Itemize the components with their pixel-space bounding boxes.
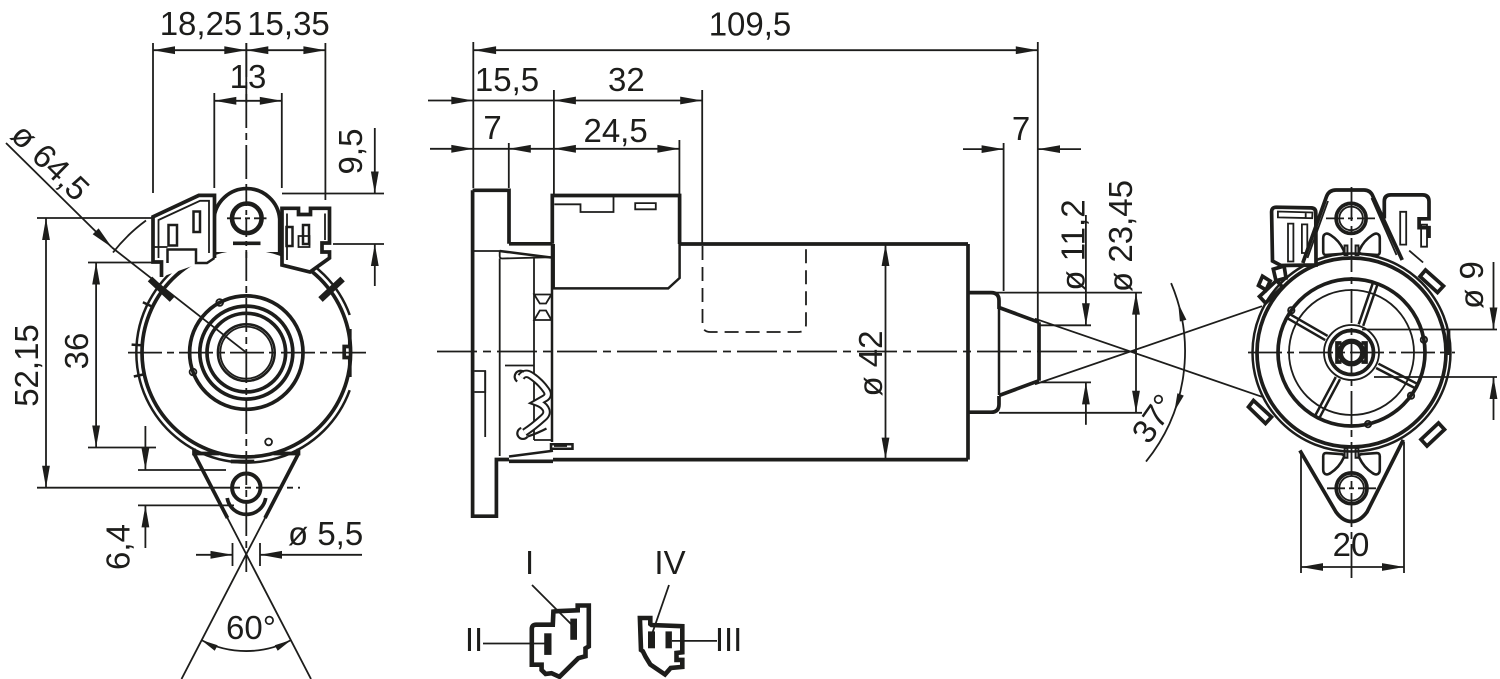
front view: mount hole: [232, 474, 260, 502]
front view: construction line left: [194, 454, 311, 679]
dim dia 11,2 arrow bottom: [1082, 382, 1090, 404]
front view: mount right slant: [265, 454, 299, 519]
dim 109,5 ext right: [1037, 42, 1039, 320]
rear view: lug right-mid: [1447, 330, 1451, 355]
dim 15,5/32 line: [428, 100, 702, 102]
front view: top mounting hole: [232, 204, 262, 234]
front view: mount hole centerline: [214, 487, 300, 489]
side view: neck left edge: [551, 245, 554, 442]
dim 7 right ext line: [1003, 143, 1005, 291]
svg-text:9,5: 9,5: [332, 129, 369, 175]
dim dia 64,5 arc: [113, 221, 146, 253]
front view: right flat notch: [344, 329, 350, 377]
side view: 37 deg arrow bottom: [1174, 393, 1183, 411]
leader line I: [532, 585, 572, 625]
dim 13 line: [214, 100, 281, 102]
dim dia 11,2 arrow top: [1082, 303, 1090, 325]
dim 7 right line left part: [963, 148, 1004, 150]
rear view: centerline vertical: [1351, 187, 1353, 583]
dim 9,5 arrow top: [371, 172, 379, 194]
side view: 37 deg arc: [1146, 283, 1185, 462]
rear view: shaft circle outer: [1339, 340, 1365, 366]
dim 15,5 ext (gearbox corner): [553, 90, 555, 194]
front view: diameter 64.5 leader diagonal to center: [112, 248, 246, 353]
dim arrow at 325: [303, 46, 325, 54]
rear view: top ear inner slant left: [1308, 201, 1329, 258]
rear view: flange contour circle: [1253, 254, 1451, 452]
rear view: top ear cutout right: [1359, 234, 1380, 255]
side view: latch tab: [551, 444, 573, 449]
side view: bearing hourglass: [534, 295, 551, 321]
side view: nose cone top: [999, 308, 1039, 323]
side view: mounting face top: [509, 242, 553, 246]
side view: axis centerline: [437, 351, 1137, 353]
svg-text:ø 64,5: ø 64,5: [4, 116, 97, 208]
front view: bearing bore inner: [220, 327, 272, 379]
dim 24,5 arrow right: [657, 145, 679, 153]
dim 32 arrow right: [680, 97, 702, 105]
dim dia 9 ext top: [1362, 329, 1497, 331]
side view: gearbox vent step: [554, 196, 613, 213]
dim dia 42 line: [885, 244, 887, 460]
dim 24,5 ext line: [678, 140, 680, 194]
dim 6,4 ext bottom: [138, 504, 234, 506]
rear view: shaft circle inner: [1341, 342, 1362, 363]
dim dia 11,2 line bottom: [1085, 382, 1087, 424]
front view: 60 deg arc arrow left: [201, 640, 218, 651]
rear view: shroud circle outer: [1278, 279, 1425, 426]
dim dia 23,45 arrow bottom: [1132, 391, 1140, 413]
svg-text:15,5: 15,5: [475, 61, 539, 98]
dim 6,4 arrow bottom: [142, 505, 150, 527]
svg-text:7: 7: [1012, 110, 1030, 147]
dim 32 ext line: [701, 90, 703, 244]
front view: centerline vertical: [245, 43, 247, 572]
dim 6,4 line top: [144, 426, 146, 470]
front view: flange top flat under dome: [233, 241, 261, 245]
side view: neck inner line: [533, 258, 535, 440]
svg-text:6,4: 6,4: [100, 524, 137, 570]
rear view: rib down-right: [1376, 364, 1417, 388]
dim 6,4 line bottom: [144, 505, 146, 548]
connector detail III/IV outline: [640, 618, 682, 675]
dim 109,5 arrow right: [1016, 46, 1038, 54]
rear view: hub notch right: [1362, 343, 1367, 362]
svg-text:15,35: 15,35: [247, 5, 330, 42]
dim 13 arrow left: [214, 97, 236, 105]
front view: top hole crosshair: [227, 217, 267, 219]
front view: flange tab: [132, 343, 144, 346]
dim dia 42 arrow bottom: [882, 438, 890, 460]
front view: mount slot line: [231, 460, 255, 464]
dim 18,25 15,35 line: [153, 49, 325, 51]
dim arrow into 473 right: [451, 97, 473, 105]
svg-text:ø 23,45: ø 23,45: [1102, 180, 1139, 292]
dim 52,15 arrow top: [42, 218, 50, 240]
rear view: connector right slot a: [1400, 212, 1406, 245]
dim dia 5,5 arrow right: [260, 551, 282, 559]
leader line III: [672, 640, 717, 642]
rear view: rib up: [1359, 283, 1378, 326]
front view: mount left slant: [194, 454, 228, 519]
rear view: bottom throat slot right: [1356, 448, 1359, 458]
front view: boss circle r46: [200, 306, 293, 399]
svg-text:IV: IV: [654, 544, 685, 581]
rear view: bottom throat slot left: [1345, 448, 1348, 458]
dim arrow at 246 right: [224, 46, 246, 54]
side view: spring clip top head: [515, 371, 524, 382]
dim 20 ext right: [1403, 442, 1405, 573]
front view: rim nub b: [190, 369, 197, 376]
dim dia 11,2 line top: [1085, 215, 1087, 325]
side view: gearbox lower outline: [554, 244, 680, 288]
rear view: shroud circle inner: [1289, 290, 1414, 415]
svg-text:I: I: [525, 544, 534, 581]
dim 6,4 arrow top: [142, 448, 150, 470]
dim 24,5 arrow left: [554, 145, 576, 153]
svg-text:ø 5,5: ø 5,5: [288, 515, 363, 552]
dim dia 9 line top: [1493, 262, 1495, 330]
dim dia 64,5 leader upper segment: [6, 143, 112, 248]
front view: connector III/IV inner: [287, 214, 325, 261]
dim dia 11,2 ext bottom: [1040, 381, 1091, 383]
svg-text:60°: 60°: [226, 609, 276, 646]
dim 20 line: [1301, 566, 1404, 568]
rear view: bottom ear cutout right: [1359, 453, 1380, 474]
svg-text:32: 32: [608, 61, 645, 98]
side view: flange plate pocket lower: [484, 371, 486, 437]
rear view: top throat slot left: [1345, 246, 1348, 256]
dim dia 9 line bottom: [1493, 377, 1495, 420]
side view: cone construction line lower: [1035, 306, 1262, 384]
dim arrow at 246 left: [246, 46, 268, 54]
dim dia 23,45 ext bottom: [999, 412, 1142, 414]
rear view: connector left lug: [1259, 276, 1271, 290]
side view: nose end face: [1037, 322, 1041, 380]
front view: connector I/II pin slot 1: [169, 225, 178, 246]
side view: end bell bottom: [968, 396, 999, 412]
front view: top dome boss: [214, 189, 280, 252]
dim dia 5,5 ext right: [259, 543, 261, 566]
side view: nose cone bottom: [999, 381, 1039, 396]
front view: centerline horizontal: [128, 352, 366, 354]
dim 36 arrow top: [92, 263, 100, 285]
dim arrow at 153: [153, 46, 175, 54]
front view: flange tab: [134, 374, 146, 377]
dim 9,5 ext top: [282, 193, 384, 195]
side view: cone construction line upper: [1035, 319, 1262, 397]
dim 7/24,5 line: [430, 148, 679, 150]
front view: connector III/IV outline: [282, 208, 330, 272]
svg-text:37°: 37°: [1124, 387, 1183, 449]
front view: mount boss arc: [227, 498, 266, 514]
leader line II: [483, 643, 546, 645]
dim dia 42 arrow top: [882, 244, 890, 266]
connector detail I pin: [570, 619, 577, 640]
front view: connector I/II step: [153, 246, 168, 248]
leader line IV: [653, 585, 669, 632]
dim 7 right line right part: [1038, 148, 1081, 150]
dim 9,5 arrow bottom: [371, 244, 379, 266]
front view: center extension solid: [245, 43, 247, 103]
front view: flange contour arc: [136, 243, 349, 463]
rear view: top throat slot right: [1356, 246, 1359, 256]
svg-text:7: 7: [483, 109, 501, 146]
dim 20 arrow left: [1301, 563, 1323, 571]
rear view: hub notch left: [1337, 343, 1342, 362]
side view: end bell top: [968, 293, 999, 309]
svg-text:ø 42: ø 42: [852, 330, 889, 396]
rear view: bearing ring: [1324, 325, 1379, 380]
dim 13 ext right: [281, 93, 283, 188]
rear view: bottom ear gusset: [1300, 440, 1403, 522]
rear view: pot circle: [1257, 258, 1446, 447]
side view: nose face line: [998, 309, 1001, 395]
dim 7 arrow left-pointing: [509, 145, 531, 153]
dim 109,5 arrow left: [474, 46, 496, 54]
svg-text:13: 13: [230, 58, 267, 95]
connector detail I/II outline: [532, 606, 589, 677]
rear view: lug right-low: [1421, 423, 1445, 446]
connector detail II pin: [544, 633, 551, 655]
front view: rim nub a: [216, 299, 223, 306]
dim 6,4 ext top: [138, 469, 226, 471]
rear view: rim nub d: [1288, 307, 1294, 313]
rear view: rib down-left: [1315, 377, 1340, 418]
dim 7 arrow right-pointing: [451, 145, 473, 153]
front view: rim nub c: [265, 439, 272, 446]
rear view: lug left-low: [1249, 401, 1272, 424]
dim dia 23,45 line: [1135, 293, 1137, 413]
dim dia 5,5 arrow left: [211, 551, 233, 559]
front view: connector III/IV pin slot 2: [303, 225, 309, 244]
front view: construction line right: [182, 454, 299, 679]
front view: connector I/II bottom notch: [168, 250, 215, 264]
dim 36 ext bottom: [88, 447, 156, 449]
front view: mount right corner edge: [274, 449, 299, 454]
connector detail III pin: [666, 631, 672, 648]
rear view: centerline horizontal: [1248, 352, 1455, 354]
front view: boss circle r57: [190, 296, 303, 409]
rear view: connector left bottom tab: [1273, 266, 1286, 281]
front view: connector I/II outline: [153, 195, 215, 277]
rear view: lug left-top: [1260, 281, 1283, 304]
dim 13 arrow right: [260, 97, 282, 105]
dim 20 arrow right: [1382, 563, 1404, 571]
side view: gearbox outline: [552, 196, 679, 245]
front view: 60 deg arc arrow right: [275, 640, 292, 651]
front view: connector III/IV small box: [299, 236, 310, 247]
rear view: top ear cutout left: [1323, 234, 1344, 255]
side view: foot line: [509, 459, 553, 463]
side view: 37 deg arrow top: [1178, 303, 1186, 321]
side view: gearbox vent slot: [635, 203, 656, 209]
rear view: top ear hole outer: [1336, 203, 1366, 233]
dim 13 ext left: [213, 93, 215, 188]
rear view: top ear hole crosshair: [1326, 217, 1377, 219]
dim 18,25/15,35 ext line left: [152, 43, 154, 193]
dim dia 64,5 arrow: [93, 228, 112, 247]
side view: pot bottom line: [553, 458, 968, 462]
rear view: connector left top strip: [1278, 212, 1313, 219]
dim 9,5 line bottom: [374, 244, 376, 286]
svg-text:18,25: 18,25: [160, 5, 243, 42]
dim 36 line: [95, 263, 97, 448]
side view: mounting lip slant bottom: [509, 451, 553, 457]
front view: 60 deg arc: [201, 640, 291, 651]
front view: connector I/II inner outline: [159, 201, 210, 258]
dim 36 arrow bottom: [92, 426, 100, 448]
rear view: top ear gusset: [1303, 190, 1402, 263]
svg-text:52,15: 52,15: [8, 324, 45, 407]
side view: pot right edge: [966, 244, 970, 460]
svg-text:II: II: [465, 621, 483, 658]
side view: flange plate right face: [499, 259, 501, 457]
dim ext line right: [324, 43, 326, 200]
front view: connector I/II pin slot 2: [194, 212, 201, 233]
dim 109,5 ext left: [472, 42, 474, 188]
rear view: bottom ear cutout left: [1323, 453, 1344, 474]
side view: latch tab inner: [554, 445, 567, 447]
side view: neck cavity bottom: [534, 439, 552, 441]
connector detail IV pin: [648, 631, 655, 648]
dim 52,15 line: [45, 218, 47, 488]
dim 9,5 line top: [374, 128, 376, 194]
dim 7 right arrow right: [1038, 145, 1060, 153]
rear view: top ear inner slant right: [1372, 198, 1397, 255]
side view: hidden gear dashed box: [703, 246, 807, 332]
side view: mounting lip slant top: [500, 251, 551, 258]
rear view: rim nub b: [1408, 393, 1414, 399]
front view: mount left corner edge: [194, 449, 219, 454]
side view: flange plate inner pocket: [475, 371, 486, 392]
rear view: rim nub c: [1365, 421, 1371, 427]
rear view: connector left slot b: [1302, 224, 1307, 253]
dim dia 11,2 ext top: [1040, 324, 1091, 326]
front view: rim wedge right: [321, 279, 343, 300]
dim 52,15 ext bottom: [37, 487, 214, 489]
side view: flange plate step top: [473, 251, 551, 259]
rear view: connector left slot a: [1288, 224, 1293, 262]
dim dia 9 arrow top: [1490, 308, 1498, 330]
svg-text:III: III: [715, 621, 743, 658]
rear view: top ear hole inner: [1339, 207, 1363, 231]
dim dia 9 ext bottom: [1374, 376, 1497, 378]
svg-text:ø 11,2: ø 11,2: [1055, 199, 1092, 290]
front view: pot outer circle: [142, 248, 351, 457]
dim 9,5 ext bottom: [333, 243, 384, 245]
side view: brush plate line: [505, 365, 534, 367]
front view: flange tab: [143, 302, 154, 307]
rear view: bottom ear hole outer: [1336, 473, 1367, 504]
dim dia 5,5 ext left: [232, 543, 234, 566]
svg-text:36: 36: [58, 333, 95, 370]
dim 52,15 arrow bottom: [42, 466, 50, 488]
side view: spring clip bottom head: [517, 428, 527, 439]
dim dia 5,5 tail left: [196, 554, 233, 556]
svg-text:20: 20: [1333, 526, 1370, 563]
rear view: bottom ear hole inner: [1339, 476, 1364, 501]
dim dia 23,45 ext top: [970, 292, 1142, 294]
svg-text:24,5: 24,5: [583, 112, 647, 149]
side view: spring clip tail: [528, 429, 547, 437]
rear view: bottom ear hole crosshair: [1327, 487, 1377, 489]
rear view: rim nub a: [1421, 337, 1427, 343]
front view: dome centerline vertical: [245, 188, 247, 258]
dim 7 right arrow left: [982, 145, 1004, 153]
dim 20 ext left: [1300, 452, 1302, 573]
rear view: connector right inner diag: [1409, 251, 1423, 263]
front view: bearing bore outer: [218, 324, 275, 381]
side view: spring clip band inner white: [521, 374, 548, 433]
dim dia 23,45 arrow top: [1132, 293, 1140, 315]
dim 109,5 line: [473, 49, 1038, 51]
side view: spring clip band outer: [521, 374, 548, 433]
rear view: connector right outline: [1384, 195, 1429, 238]
rear view: connector right slot b: [1421, 225, 1427, 247]
front view: connector III/IV pin slot 1: [287, 227, 293, 246]
rear view: hub circle: [1330, 331, 1374, 375]
side view: pot top line: [680, 242, 968, 246]
dim 52,15 ext top: [37, 217, 152, 219]
dim 32 arrow left: [554, 97, 576, 105]
front view: boss circle r39: [207, 313, 286, 392]
dim 36 ext top: [88, 262, 156, 264]
svg-text:109,5: 109,5: [709, 6, 792, 43]
rear view: rib left: [1288, 314, 1328, 340]
rear view: lug right-top: [1420, 270, 1444, 293]
dim 7 ext line: [508, 143, 510, 188]
dim dia 9 arrow bottom: [1490, 377, 1498, 399]
front view: rim wedge left: [150, 279, 172, 300]
svg-text:ø 9: ø 9: [1453, 261, 1490, 309]
rear view: connector left outline: [1272, 207, 1316, 265]
side view: flange plate outline: [473, 190, 509, 516]
dim dia 5,5 tail right: [260, 554, 362, 556]
